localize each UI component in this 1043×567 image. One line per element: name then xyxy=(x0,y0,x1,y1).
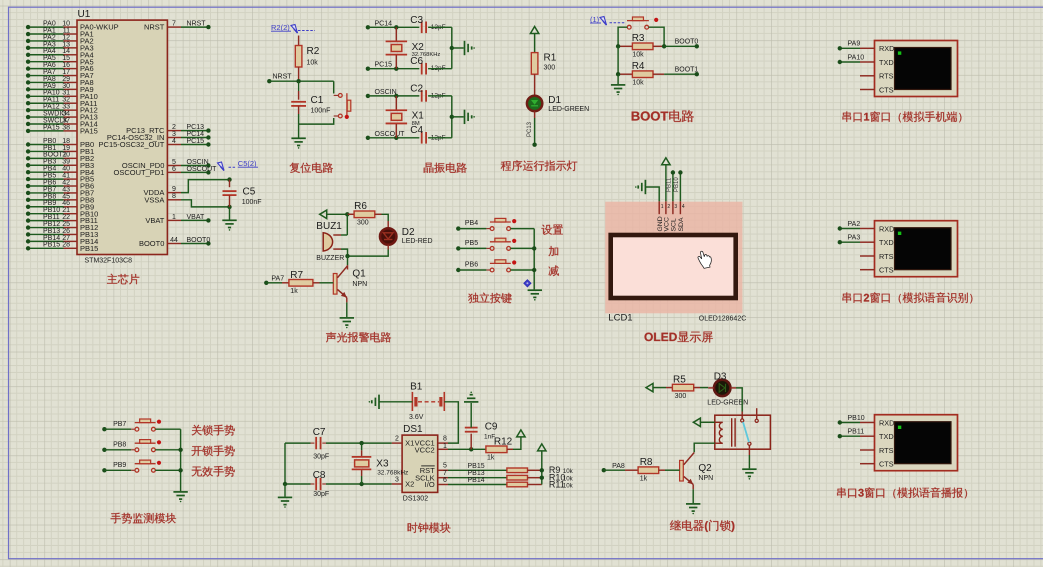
svg-text:TXD: TXD xyxy=(879,432,894,441)
wire C7 row left xyxy=(285,442,314,444)
wire to button RST xyxy=(333,81,335,93)
resistor R1 xyxy=(531,53,556,75)
svg-text:RTS: RTS xyxy=(879,72,894,81)
svg-text:CTS: CTS xyxy=(879,266,894,275)
power arrow (pullups) xyxy=(538,444,546,451)
label 晶振电路 xyxy=(424,163,467,174)
svg-text:PB15: PB15 xyxy=(80,244,98,253)
svg-text:BOOT0: BOOT0 xyxy=(139,239,164,248)
wire BOOT button left xyxy=(618,27,627,46)
svg-text:3: 3 xyxy=(172,131,176,138)
wire battery to VCC1 xyxy=(444,402,458,443)
LCD1 module body xyxy=(605,202,742,314)
LCD1 screen frame xyxy=(611,235,736,298)
svg-text:C3: C3 xyxy=(410,15,423,26)
wire PB4 to button xyxy=(458,228,490,230)
node PC14 xyxy=(366,20,392,29)
wire X3 gnd xyxy=(284,484,286,497)
svg-text:4: 4 xyxy=(682,204,685,210)
relay RL1 body xyxy=(715,415,771,449)
crystal X2 xyxy=(386,41,441,58)
wire D3 to relay contact xyxy=(736,388,742,419)
node R3-BOOT0 xyxy=(616,44,666,48)
wire R2 top xyxy=(298,36,300,46)
wires NRST PC13 PC14 PC15 OSCIN OSCOUT VBAT BOOT0 nets xyxy=(181,21,217,246)
power arrow (OLED) xyxy=(662,158,670,165)
svg-text:OLED128642C: OLED128642C xyxy=(699,316,746,323)
wire PB13 net xyxy=(448,470,507,478)
wire VCC2 row xyxy=(448,447,486,451)
svg-text:VBAT: VBAT xyxy=(145,216,164,225)
wire PA7 net xyxy=(266,282,282,284)
svg-text:PC15: PC15 xyxy=(187,138,205,145)
ground (X3) xyxy=(278,497,292,507)
svg-text:RXD: RXD xyxy=(879,224,894,233)
wire OSCOUT row xyxy=(368,136,419,140)
svg-text:10k: 10k xyxy=(632,80,644,87)
svg-text:32.768kHz: 32.768kHz xyxy=(377,469,408,476)
svg-text:R2(2): R2(2) xyxy=(271,23,290,32)
svg-text:10k: 10k xyxy=(632,52,644,59)
wire X3 left vertical xyxy=(283,443,287,486)
svg-text:X1: X1 xyxy=(405,439,414,448)
terminal P2 pins xyxy=(860,224,894,274)
wire button 减 right xyxy=(511,269,535,271)
svg-text:100nF: 100nF xyxy=(242,199,262,206)
svg-text:C5(2): C5(2) xyxy=(238,159,257,168)
svg-text:PB15: PB15 xyxy=(468,463,485,470)
toggle dot (开锁手势) xyxy=(157,440,161,444)
svg-text:PB10: PB10 xyxy=(674,177,680,192)
svg-text:PA7: PA7 xyxy=(271,275,284,282)
capacitor C4 xyxy=(410,125,445,144)
ground (C5) xyxy=(222,220,236,230)
svg-text:CTS: CTS xyxy=(879,460,894,469)
resistor R3 xyxy=(618,33,664,59)
wire button 设置 right xyxy=(511,228,535,230)
wire PB9 to button xyxy=(104,469,135,471)
node NRST xyxy=(267,74,292,84)
terminal P1 body xyxy=(875,41,958,97)
relay contacts xyxy=(741,408,759,445)
svg-text:100nF: 100nF xyxy=(311,108,331,115)
wire gesture common xyxy=(178,429,182,491)
svg-text:BOOT0: BOOT0 xyxy=(675,38,699,45)
svg-text:SCL: SCL xyxy=(671,218,678,231)
wire X1 top xyxy=(395,96,397,110)
svg-text:2: 2 xyxy=(395,436,399,443)
svg-text:8: 8 xyxy=(172,193,176,200)
resistor R12 xyxy=(486,436,513,461)
chip DS1 pin X1 xyxy=(392,436,415,448)
wire caps common xyxy=(450,27,464,68)
svg-text:VSSA: VSSA xyxy=(144,195,164,204)
wire relay contact to ground xyxy=(748,445,750,468)
wire C8 row left xyxy=(285,483,314,485)
svg-text:8: 8 xyxy=(443,436,447,443)
svg-text:1k: 1k xyxy=(487,455,495,462)
label 程序运行指示灯 xyxy=(501,160,578,171)
wire BOOT button right xyxy=(649,27,665,46)
svg-text:6: 6 xyxy=(443,477,447,484)
svg-text:VCC2: VCC2 xyxy=(415,446,435,455)
wire collector xyxy=(347,256,349,265)
wire R6 to D2 xyxy=(382,214,389,228)
svg-text:PB10: PB10 xyxy=(848,415,865,422)
svg-text:BUZ1: BUZ1 xyxy=(316,221,342,232)
wire OLED GND xyxy=(645,187,659,201)
battery B1 xyxy=(409,381,444,420)
crystal X3 xyxy=(352,443,409,484)
wire C8 row right xyxy=(322,482,391,486)
wire C1 top xyxy=(298,81,300,100)
button 开锁手势 xyxy=(135,440,156,452)
toggle dot (加) xyxy=(512,239,516,243)
power arrow (R5) xyxy=(646,383,666,391)
chip U1 PB pins xyxy=(62,138,98,253)
chip U1 body xyxy=(77,9,167,264)
svg-text:PB11: PB11 xyxy=(667,177,673,192)
power arrow (R12) xyxy=(517,430,525,437)
svg-text:(1): (1) xyxy=(590,15,600,24)
wire button 开锁手势 right xyxy=(155,449,180,451)
svg-text:3: 3 xyxy=(674,204,677,210)
svg-text:OSCOUT_PD1: OSCOUT_PD1 xyxy=(114,168,165,177)
svg-text:C8: C8 xyxy=(313,470,326,481)
wire C7 row right xyxy=(322,441,391,445)
resistor R5 xyxy=(666,375,700,400)
wire to ground (reset) xyxy=(298,124,300,138)
svg-text:30pF: 30pF xyxy=(313,491,329,498)
svg-text:3: 3 xyxy=(395,476,399,483)
wires PA0-PA15 nets xyxy=(26,21,68,134)
label 减 xyxy=(549,266,559,277)
svg-text:PB8: PB8 xyxy=(113,441,126,448)
svg-text:RXD: RXD xyxy=(879,44,894,53)
svg-text:3.6V: 3.6V xyxy=(409,414,424,421)
wire button 无效手势 right xyxy=(155,469,180,471)
wire battery left xyxy=(379,401,412,403)
svg-text:OSCOUT: OSCOUT xyxy=(187,166,218,173)
wire buzzer top xyxy=(341,214,347,235)
capacitor C9 xyxy=(465,403,498,449)
wire button bottom xyxy=(299,118,334,124)
svg-text:5: 5 xyxy=(443,463,447,470)
svg-text:R8: R8 xyxy=(640,457,653,468)
svg-text:TXD: TXD xyxy=(879,238,894,247)
svg-text:44: 44 xyxy=(170,237,178,244)
svg-text:PC15: PC15 xyxy=(375,62,393,69)
svg-text:PB14: PB14 xyxy=(468,477,485,484)
crystal X1 xyxy=(386,110,425,127)
wire OLED VCC xyxy=(665,165,667,201)
svg-text:4: 4 xyxy=(172,138,176,145)
wires terminal P3 nets xyxy=(838,415,865,439)
ground (gesture) xyxy=(173,492,187,502)
wire R8 to Q2 base xyxy=(665,469,680,471)
ground (buttons) xyxy=(528,290,542,300)
wire PC15 row xyxy=(368,67,419,71)
wire C2 right xyxy=(428,95,452,97)
svg-text:U1: U1 xyxy=(78,9,91,20)
label (1) blue xyxy=(590,15,624,25)
ground (reset) xyxy=(291,138,305,148)
toggle dot (设置) xyxy=(512,219,516,223)
toggle dot (减) xyxy=(512,260,516,264)
svg-text:10k: 10k xyxy=(563,482,574,489)
svg-text:1: 1 xyxy=(443,443,447,450)
toggle dot (BOOT button) xyxy=(654,18,658,22)
wire C5 to ground xyxy=(229,207,231,220)
button BOOT xyxy=(627,17,649,29)
label 主芯片 xyxy=(107,274,139,285)
svg-text:C7: C7 xyxy=(313,427,326,438)
svg-text:R6: R6 xyxy=(354,201,367,212)
svg-text:PB11: PB11 xyxy=(848,429,865,436)
wire C6 right xyxy=(428,68,452,70)
LED D3 LED-GREEN xyxy=(707,371,748,406)
ground (crystal, sideways) xyxy=(465,110,475,124)
svg-text:PB7: PB7 xyxy=(113,421,126,428)
ground (Q1) xyxy=(340,318,354,328)
wire BOOT1 net xyxy=(664,66,699,76)
wire PB8 to button xyxy=(104,449,135,451)
node PB6 (button) xyxy=(456,262,478,273)
node PC13 (LED) xyxy=(532,143,536,147)
svg-text:1k: 1k xyxy=(640,475,648,482)
capacitor C3 xyxy=(410,15,445,33)
label 串口1窗口（... xyxy=(843,111,962,122)
node PB9 (gesture) xyxy=(102,462,126,473)
svg-text:X3: X3 xyxy=(376,458,389,469)
svg-text:LCD1: LCD1 xyxy=(608,313,632,324)
resistor R6 xyxy=(347,201,381,227)
resistor R9 xyxy=(507,465,574,475)
wire C3 right xyxy=(428,26,452,28)
chip DS1 pin X2 xyxy=(392,476,415,488)
resistor R11 xyxy=(507,479,574,489)
svg-text:300: 300 xyxy=(675,393,687,400)
cursor hand xyxy=(698,251,711,268)
label 无效手势 xyxy=(192,466,235,477)
marker blue diamond xyxy=(524,280,531,287)
svg-text:6: 6 xyxy=(172,166,176,173)
wire D2 bottom xyxy=(348,245,389,256)
svg-text:NRST: NRST xyxy=(144,23,165,32)
wire Q2 emitter to ground xyxy=(692,489,694,503)
wire PB15 net xyxy=(448,463,507,471)
button 无效手势 xyxy=(135,460,156,472)
button 减 xyxy=(490,260,511,272)
svg-text:1: 1 xyxy=(661,204,664,210)
svg-text:NRST: NRST xyxy=(187,21,207,28)
relay coil xyxy=(715,418,735,447)
wire buzzer bottom xyxy=(341,249,348,256)
chip U1 right pins xyxy=(99,21,181,249)
node R4 left xyxy=(616,72,620,76)
label C5(2) blue xyxy=(218,159,259,171)
svg-text:R1: R1 xyxy=(544,53,557,64)
wire NRST net xyxy=(269,79,333,83)
svg-text:Q2: Q2 xyxy=(698,463,712,474)
chip DS1 pin VCC1 xyxy=(415,436,448,448)
wires terminal P1 nets xyxy=(838,41,865,64)
wire C4 right xyxy=(428,137,452,139)
capacitor C2 xyxy=(410,84,445,102)
label 声光报警电路 xyxy=(326,332,391,343)
chip DS1 pin IO xyxy=(425,477,448,489)
label 串口3窗口（... xyxy=(837,487,967,498)
svg-text:TXD: TXD xyxy=(879,58,894,67)
wire D1 to PC13 node xyxy=(527,111,535,144)
label 手势监测模块 xyxy=(111,513,176,524)
wire to ground (BOOT) xyxy=(617,74,619,84)
wire emitter to ground xyxy=(346,302,348,317)
svg-text:C2: C2 xyxy=(410,84,423,95)
node PA7 xyxy=(264,275,284,285)
power arrow (alarm) xyxy=(320,210,348,218)
label 复位电路 xyxy=(290,163,333,174)
svg-text:BOOT0: BOOT0 xyxy=(187,237,211,244)
toggle dot (无效手势) xyxy=(157,461,161,465)
wire X1 bottom xyxy=(395,124,397,138)
wire PB14 net xyxy=(448,477,507,485)
transistor Q1 xyxy=(333,265,367,302)
svg-text:DS1: DS1 xyxy=(403,424,423,435)
svg-text:PB9: PB9 xyxy=(113,462,126,469)
svg-text:2: 2 xyxy=(667,204,670,210)
svg-text:PB6: PB6 xyxy=(465,262,478,269)
wire relay coil bottom xyxy=(694,443,715,452)
LCD1 labels xyxy=(608,313,746,324)
label 关锁手势 xyxy=(192,425,235,436)
wire OSCIN row xyxy=(368,94,419,98)
terminal P3 body xyxy=(875,415,958,471)
svg-text:DS1302: DS1302 xyxy=(403,496,428,503)
svg-text:D3: D3 xyxy=(714,371,727,382)
wire PB7 to button xyxy=(104,428,135,430)
svg-text:10k: 10k xyxy=(307,60,319,67)
svg-text:RTS: RTS xyxy=(879,252,894,261)
svg-text:1: 1 xyxy=(172,214,176,221)
wire R3-R4 vertical xyxy=(617,46,619,74)
node PA8 xyxy=(602,463,625,473)
svg-text:30pF: 30pF xyxy=(313,454,329,461)
resistor R8 xyxy=(625,457,665,482)
svg-text:X2: X2 xyxy=(405,480,414,489)
wire buttons common xyxy=(532,229,536,290)
node OSCIN xyxy=(366,89,397,98)
svg-text:R4: R4 xyxy=(632,61,645,72)
svg-text:PA15: PA15 xyxy=(43,124,60,131)
wire button 关锁手势 right xyxy=(155,428,180,430)
svg-text:VCC: VCC xyxy=(664,217,671,231)
terminal P1 pins xyxy=(860,44,894,94)
node PB7 (gesture) xyxy=(102,421,126,432)
svg-text:PA3: PA3 xyxy=(848,235,861,242)
svg-text:STM32F103C8: STM32F103C8 xyxy=(85,257,133,264)
svg-text:D1: D1 xyxy=(548,95,561,106)
svg-text:RXD: RXD xyxy=(879,418,894,427)
svg-text:9: 9 xyxy=(172,186,176,193)
wire PB5 to button xyxy=(458,247,490,249)
chip DS1 pin RST xyxy=(420,463,448,475)
resistor R4 xyxy=(618,61,664,87)
buzzer pins xyxy=(333,235,341,249)
svg-text:NPN: NPN xyxy=(698,475,713,482)
wire R1 to D1 xyxy=(534,74,536,95)
ground (relay) xyxy=(742,469,756,479)
chip DS1 body xyxy=(402,424,438,502)
LED D2 LED-RED xyxy=(380,227,433,245)
node OSCOUT xyxy=(366,131,405,140)
svg-text:CTS: CTS xyxy=(879,85,894,94)
svg-text:PB4: PB4 xyxy=(465,220,478,227)
svg-text:PC14: PC14 xyxy=(187,131,205,138)
svg-text:PC13: PC13 xyxy=(527,121,533,137)
wire VDDA to C5 xyxy=(181,177,232,192)
resistor R7 xyxy=(282,270,320,295)
power arrow (R1 top) xyxy=(530,27,538,53)
svg-text:PC15-OSC32_OUT: PC15-OSC32_OUT xyxy=(99,140,165,149)
button 设置 xyxy=(490,218,511,230)
wire R2 bottom xyxy=(298,67,300,81)
node PB8 (gesture) xyxy=(102,441,126,452)
svg-text:NRST: NRST xyxy=(273,74,293,81)
wire R12 to power xyxy=(513,437,521,449)
LCD1 pins GND VCC SCL SDA xyxy=(657,201,685,231)
svg-text:PA2: PA2 xyxy=(848,221,861,228)
ground (Q2) xyxy=(686,504,700,514)
wire X2 bottom xyxy=(395,55,397,68)
label BOOT电路 xyxy=(632,110,694,122)
svg-text:Q1: Q1 xyxy=(352,269,366,280)
label 设置 xyxy=(542,225,563,235)
wire PB6 to button xyxy=(458,269,490,271)
svg-text:1k: 1k xyxy=(290,288,298,295)
svg-text:R7: R7 xyxy=(290,270,303,281)
label 串口2窗口（... xyxy=(843,292,973,303)
wire caps common xyxy=(450,96,464,138)
capacitor C1 xyxy=(291,95,330,115)
wire OLED SCL xyxy=(667,170,675,201)
button 加 xyxy=(490,238,511,250)
svg-text:NPN: NPN xyxy=(352,281,367,288)
svg-text:OSCOUT: OSCOUT xyxy=(375,131,406,138)
wire X2 top xyxy=(395,27,397,41)
wire R7 to Q1 base xyxy=(320,282,334,284)
power arrow (relay coil) xyxy=(693,418,714,426)
svg-text:300: 300 xyxy=(544,65,556,72)
wire OLED SDA xyxy=(674,170,682,201)
svg-text:PB15: PB15 xyxy=(43,242,60,249)
toggle dot (关锁手势) xyxy=(157,420,161,424)
svg-text:C9: C9 xyxy=(485,421,498,432)
svg-text:VBAT: VBAT xyxy=(187,214,205,221)
svg-text:LED-RED: LED-RED xyxy=(402,238,433,245)
resistor R10 xyxy=(507,473,574,483)
svg-text:OSCIN: OSCIN xyxy=(375,89,397,96)
svg-text:32.768KHz: 32.768KHz xyxy=(412,52,441,58)
svg-text:B1: B1 xyxy=(410,381,423,392)
svg-text:I/O: I/O xyxy=(425,480,435,489)
node PB4 (button) xyxy=(456,220,478,231)
svg-text:C1: C1 xyxy=(311,95,324,106)
transistor Q2 xyxy=(680,453,714,490)
label 加 xyxy=(549,246,559,256)
svg-text:7: 7 xyxy=(172,21,176,28)
ground (crystal, sideways) xyxy=(465,41,475,55)
